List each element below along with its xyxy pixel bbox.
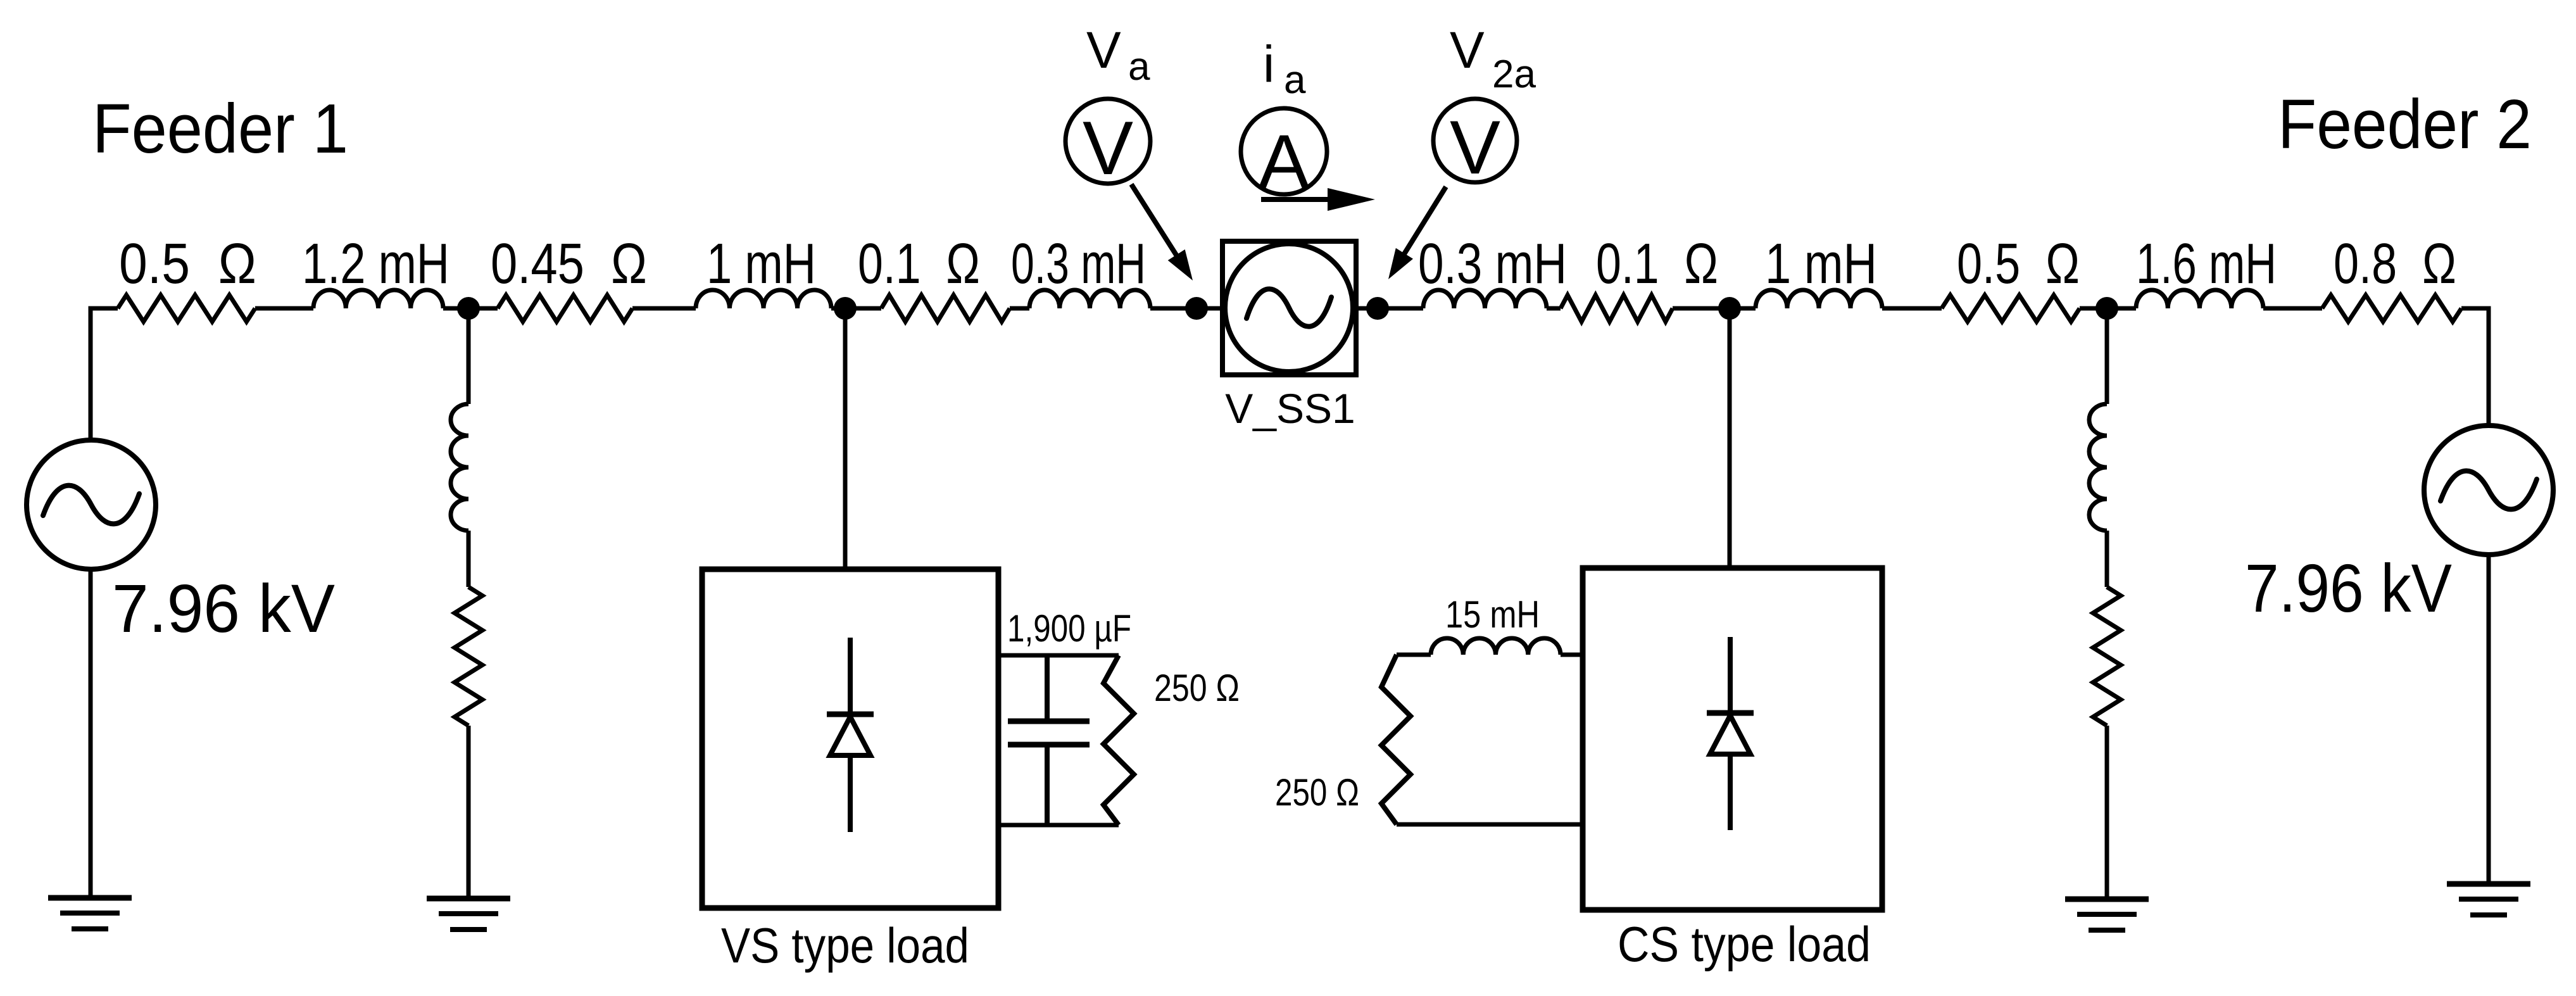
capacitor 1900uF top lead (1045, 655, 1050, 721)
svg-text:1 mH: 1 mH (1765, 232, 1877, 296)
diode VS anode lead (848, 755, 853, 832)
wire (443, 306, 498, 311)
resistor 0.45 ohm (498, 295, 632, 322)
resistor 0.5 ohm feeder2 (1942, 295, 2080, 322)
resistor 250 ohm VS (1103, 655, 1134, 825)
wire VS RC bottom (999, 823, 1119, 828)
diode VS cathode lead (848, 638, 853, 714)
svg-text:0.1 Ω: 0.1 Ω (858, 232, 980, 296)
svg-text:VS type load: VS type load (721, 917, 969, 973)
resistor 0.1 ohm right (1561, 295, 1673, 322)
wire V1 bottom to ground (89, 569, 93, 898)
ground left shunt (427, 896, 510, 902)
ground left source (48, 895, 132, 901)
inductor right shunt (2089, 404, 2107, 531)
wire node C down to CS load (1728, 308, 1732, 568)
CS load box (1583, 568, 1882, 910)
diode CS cathode lead (1728, 637, 1733, 713)
diode VS cathode bar (827, 712, 874, 717)
source V_SS1 circle (1225, 244, 1353, 372)
diode VS triangle (830, 717, 870, 755)
wire node D down (2105, 308, 2109, 404)
diode CS triangle (1710, 715, 1750, 754)
wire (1150, 306, 1222, 311)
wire node B down to VS load (843, 308, 848, 569)
svg-text:15 mH: 15 mH (1445, 593, 1540, 636)
node D junction dot (right shunt tap) (2095, 297, 2118, 320)
capacitor 1900uF bottom lead (1045, 745, 1050, 825)
svg-text:7.96 kV: 7.96 kV (112, 570, 335, 646)
svg-text:Feeder 1: Feeder 1 (92, 90, 348, 168)
AC source V2 circle (2424, 426, 2553, 555)
ground right source (2447, 881, 2530, 887)
wire (2263, 306, 2322, 311)
AC source V1 sine (43, 486, 139, 524)
wire node A down (467, 308, 471, 404)
inductor 15 mH (1431, 638, 1561, 655)
wire (467, 531, 471, 587)
node V2a measurement dot (1366, 297, 1389, 320)
resistor 0.8 ohm feeder2 (2322, 295, 2461, 322)
svg-text:Feeder 2: Feeder 2 (2278, 85, 2532, 163)
inductor 1.2 mH feeder1 (313, 290, 443, 308)
inductor 0.3 mH right (1423, 290, 1547, 308)
wire (1561, 653, 1583, 657)
source V_SS1 square (1222, 241, 1356, 375)
wire CS RL bottom (1397, 823, 1583, 827)
source V_SS1 sine (1247, 289, 1331, 326)
inductor 0.3 mH left (1029, 290, 1150, 308)
ground right shunt (2065, 897, 2149, 902)
voltmeter Va circle (1065, 99, 1150, 184)
resistor 250 ohm CS (1381, 655, 1411, 824)
svg-text:250 Ω: 250 Ω (1154, 667, 1240, 709)
diode CS anode lead (1728, 754, 1733, 830)
wire (1010, 306, 1029, 311)
node A junction dot (457, 297, 480, 320)
resistor 0.5 ohm feeder1 (118, 295, 255, 322)
wire (831, 306, 881, 311)
inductor 1 mH feeder1 (696, 290, 831, 308)
svg-text:0.5 Ω: 0.5 Ω (1957, 232, 2080, 296)
svg-text:7.96 kV: 7.96 kV (2245, 550, 2452, 626)
svg-text:2a: 2a (1492, 53, 1536, 96)
svg-text:0.8 Ω: 0.8 Ω (2334, 232, 2456, 296)
svg-text:V: V (1083, 106, 1133, 191)
svg-text:250 Ω: 250 Ω (1275, 771, 1359, 814)
svg-text:0.1 Ω: 0.1 Ω (1596, 232, 1718, 296)
wire (1882, 306, 1942, 311)
svg-text:0.3 mH: 0.3 mH (1011, 232, 1146, 296)
resistor 0.1 ohm left (881, 295, 1010, 322)
svg-text:a: a (1284, 58, 1306, 102)
current direction arrow (1261, 197, 1333, 202)
svg-text:1 mH: 1 mH (707, 232, 816, 296)
wire V2 bottom to ground (2487, 555, 2491, 884)
wire (632, 306, 696, 311)
wire left top corner to source V1 (91, 308, 118, 440)
wire (2080, 306, 2136, 311)
svg-text:a: a (1128, 45, 1150, 89)
svg-text:i: i (1263, 35, 1274, 93)
svg-text:0.45 Ω: 0.45 Ω (491, 232, 647, 296)
wire (2105, 726, 2109, 899)
wire CS RL top (1397, 653, 1431, 657)
arrow V2a to node (1399, 187, 1446, 262)
svg-text:0.3 mH: 0.3 mH (1418, 232, 1567, 296)
resistor left shunt (455, 587, 482, 726)
svg-text:V: V (1086, 22, 1121, 79)
VS load box (702, 569, 998, 908)
svg-text:V: V (1450, 22, 1485, 79)
svg-text:0.5 Ω: 0.5 Ω (119, 232, 256, 296)
node Va measurement dot (1185, 297, 1208, 320)
resistor right shunt (2093, 587, 2121, 726)
svg-text:1.2 mH: 1.2 mH (302, 232, 449, 296)
wire (255, 306, 313, 311)
AC source V1 circle (27, 440, 156, 569)
inductor 1 mH feeder2 (1756, 290, 1882, 308)
wire (467, 726, 471, 898)
svg-text:1,900 µF: 1,900 µF (1007, 607, 1131, 650)
svg-text:CS type load: CS type load (1618, 916, 1871, 972)
wire (1356, 306, 1423, 311)
svg-text:V_SS1: V_SS1 (1225, 385, 1355, 432)
AC source V2 sine (2441, 471, 2537, 510)
wire (2105, 531, 2109, 587)
diode CS cathode bar (1707, 710, 1754, 716)
inductor left shunt (451, 404, 468, 531)
wire (1547, 306, 1561, 311)
wire right top corner to source V2 (2461, 308, 2489, 426)
capacitor 1900uF top plate (1008, 719, 1090, 724)
voltmeter V2a circle (1433, 99, 1517, 182)
inductor 1.6 mH feeder2 (2136, 290, 2263, 308)
svg-text:1.6 mH: 1.6 mH (2136, 232, 2277, 296)
node B junction dot (VS load tap) (834, 297, 857, 320)
svg-text:A: A (1259, 118, 1310, 205)
wire (1673, 306, 1756, 311)
node C junction dot (CS load tap) (1718, 297, 1741, 320)
wire VS RC top (999, 653, 1119, 658)
ammeter ia circle (1241, 108, 1327, 194)
arrow Va to node (1131, 184, 1179, 259)
svg-text:V: V (1450, 105, 1500, 190)
capacitor 1900uF bottom plate (1008, 742, 1090, 748)
